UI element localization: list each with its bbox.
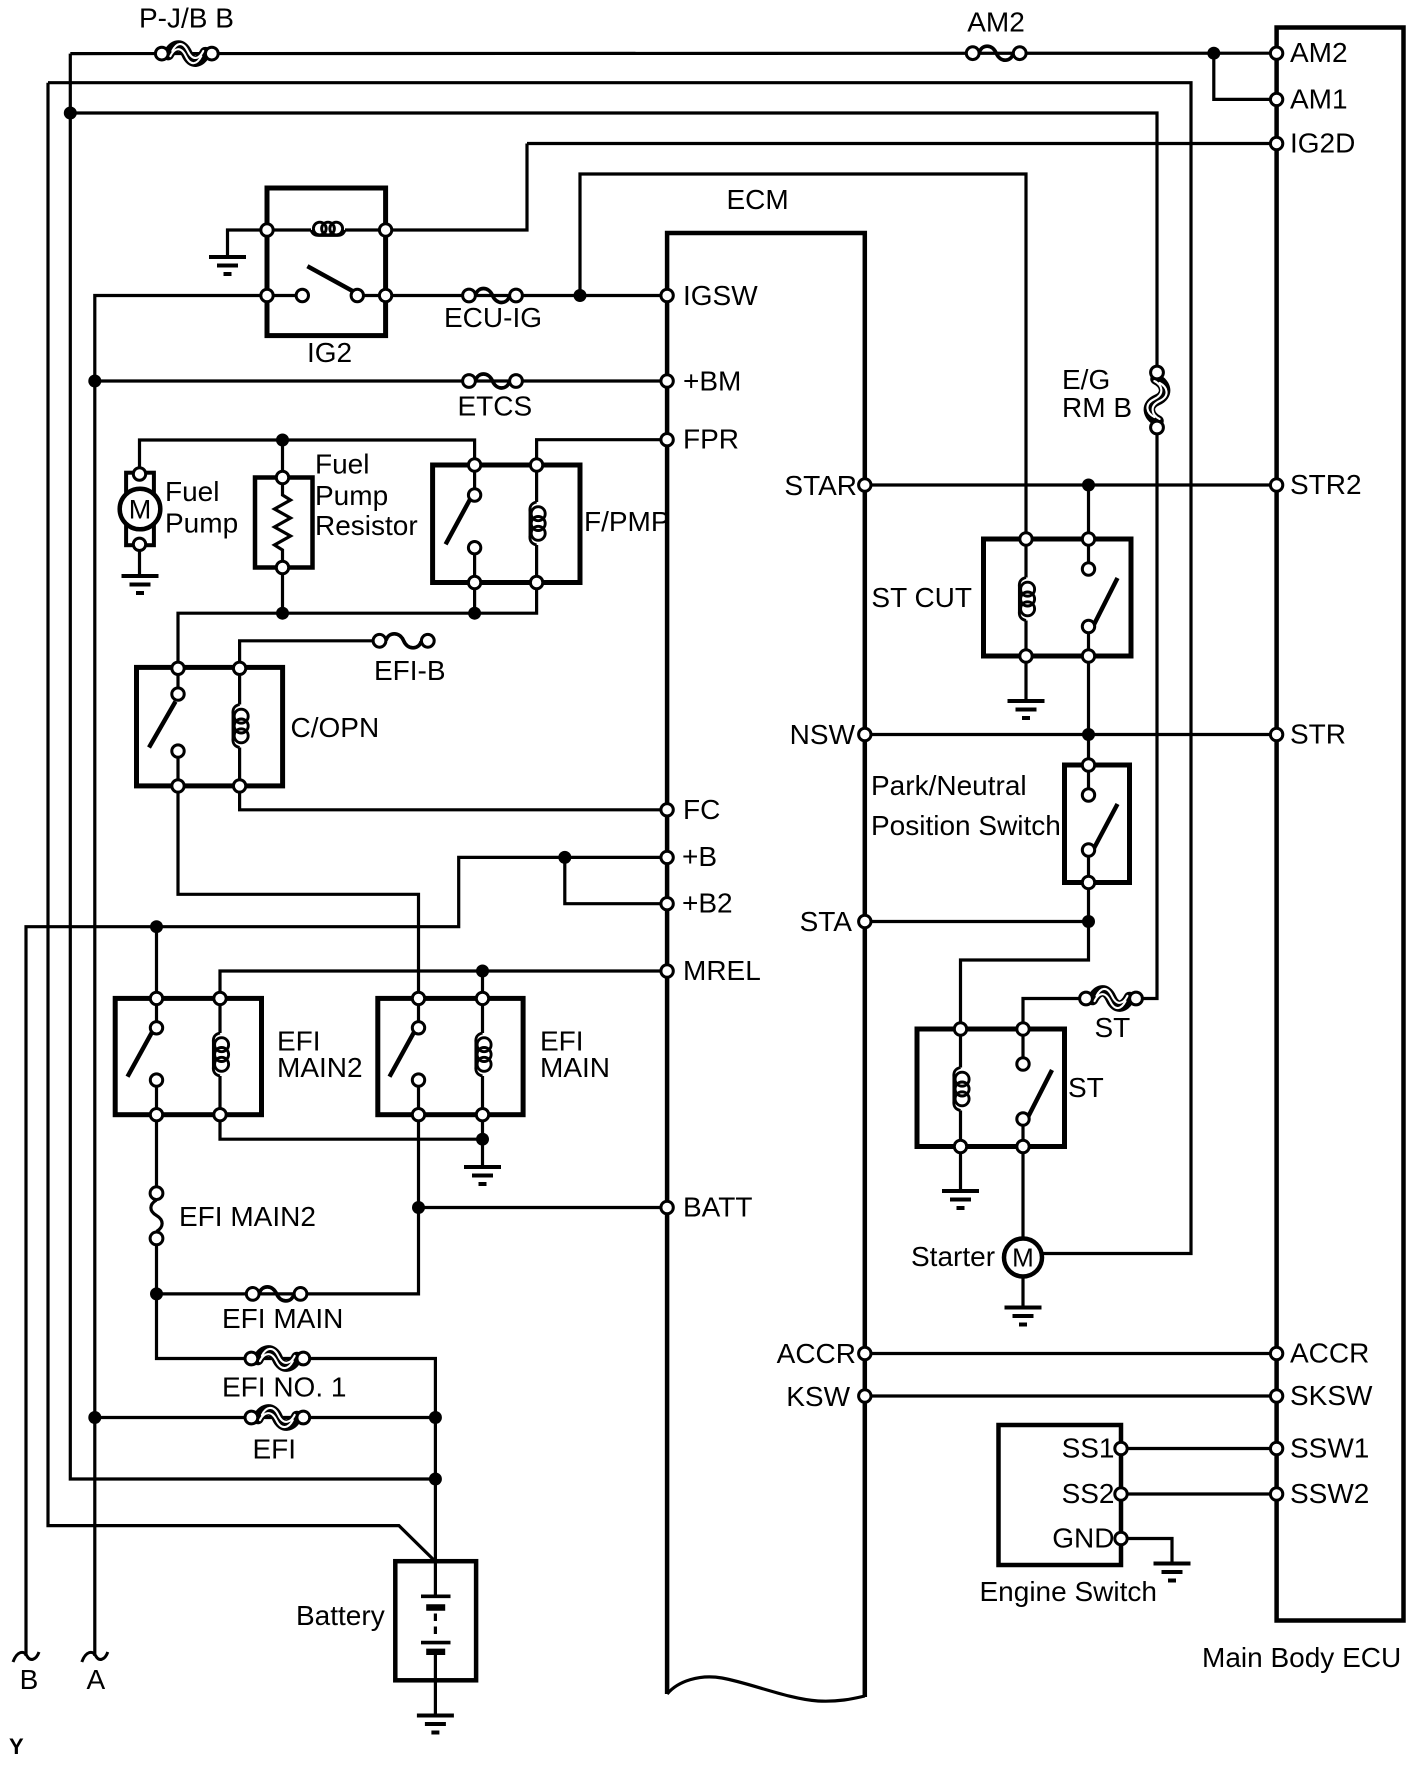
- svg-text:EFI-B: EFI-B: [374, 655, 446, 686]
- svg-text:GND: GND: [1052, 1523, 1114, 1554]
- svg-text:IGSW: IGSW: [683, 280, 758, 311]
- svg-text:KSW: KSW: [786, 1381, 850, 1412]
- svg-text:ST CUT: ST CUT: [871, 582, 972, 613]
- svg-text:STA: STA: [800, 906, 853, 937]
- svg-text:EFI: EFI: [253, 1434, 297, 1465]
- svg-text:FPR: FPR: [683, 424, 739, 455]
- svg-text:M: M: [1012, 1243, 1034, 1273]
- svg-text:RM B: RM B: [1062, 392, 1132, 423]
- svg-text:Battery: Battery: [296, 1600, 385, 1631]
- svg-text:ST: ST: [1095, 1012, 1131, 1043]
- svg-text:ECM: ECM: [727, 184, 789, 215]
- svg-text:Fuel: Fuel: [315, 449, 369, 480]
- svg-text:Y: Y: [9, 1734, 24, 1759]
- svg-text:EFI MAIN: EFI MAIN: [222, 1303, 343, 1334]
- svg-text:NSW: NSW: [790, 719, 856, 750]
- svg-text:MAIN2: MAIN2: [277, 1052, 363, 1083]
- svg-text:B: B: [20, 1664, 39, 1695]
- svg-text:AM2: AM2: [1290, 37, 1348, 68]
- svg-text:SS2: SS2: [1062, 1478, 1115, 1509]
- svg-text:+BM: +BM: [683, 366, 741, 397]
- svg-text:ACCR: ACCR: [777, 1338, 856, 1369]
- svg-text:Pump: Pump: [315, 480, 388, 511]
- svg-text:SSW1: SSW1: [1290, 1433, 1369, 1464]
- svg-text:MAIN: MAIN: [540, 1052, 610, 1083]
- svg-text:EFI MAIN2: EFI MAIN2: [179, 1201, 316, 1232]
- svg-text:MREL: MREL: [683, 955, 761, 986]
- svg-text:BATT: BATT: [683, 1192, 752, 1223]
- svg-text:ETCS: ETCS: [458, 391, 533, 422]
- svg-text:ACCR: ACCR: [1290, 1338, 1369, 1369]
- svg-text:Starter: Starter: [911, 1241, 995, 1272]
- svg-text:M: M: [129, 495, 152, 525]
- svg-text:+B: +B: [682, 841, 717, 872]
- svg-text:STR: STR: [1290, 719, 1346, 750]
- svg-text:Pump: Pump: [165, 508, 238, 539]
- svg-text:Main Body ECU: Main Body ECU: [1202, 1642, 1401, 1673]
- svg-text:E/G: E/G: [1062, 364, 1110, 395]
- svg-text:EFI NO. 1: EFI NO. 1: [222, 1372, 346, 1403]
- svg-text:SSW2: SSW2: [1290, 1478, 1369, 1509]
- svg-text:C/OPN: C/OPN: [291, 712, 380, 743]
- svg-text:ECU-IG: ECU-IG: [444, 302, 542, 333]
- svg-text:SKSW: SKSW: [1290, 1380, 1373, 1411]
- svg-text:IG2D: IG2D: [1290, 128, 1355, 159]
- svg-text:P-J/B B: P-J/B B: [139, 3, 234, 34]
- svg-text:Engine Switch: Engine Switch: [980, 1576, 1157, 1607]
- svg-text:AM2: AM2: [967, 7, 1025, 38]
- svg-text:+B2: +B2: [682, 888, 733, 919]
- svg-text:IG2: IG2: [307, 337, 352, 368]
- svg-text:AM1: AM1: [1290, 83, 1348, 114]
- svg-text:STAR: STAR: [784, 470, 857, 501]
- svg-text:A: A: [87, 1664, 106, 1695]
- svg-text:STR2: STR2: [1290, 469, 1362, 500]
- svg-text:FC: FC: [683, 794, 720, 825]
- svg-text:F/PMP: F/PMP: [584, 506, 670, 537]
- svg-text:Fuel: Fuel: [165, 476, 219, 507]
- svg-text:Resistor: Resistor: [315, 510, 418, 541]
- svg-text:Position Switch: Position Switch: [871, 810, 1061, 841]
- svg-text:ST: ST: [1068, 1072, 1104, 1103]
- svg-text:SS1: SS1: [1062, 1433, 1115, 1464]
- svg-text:Park/Neutral: Park/Neutral: [871, 770, 1027, 801]
